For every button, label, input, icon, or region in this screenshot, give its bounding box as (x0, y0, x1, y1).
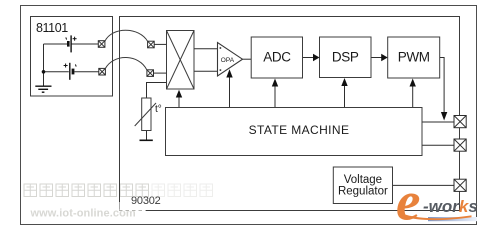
svg-text:e: e (396, 171, 420, 232)
svg-text:81101: 81101 (36, 21, 68, 35)
svg-text:t°: t° (155, 104, 162, 115)
svg-text:Voltage: Voltage (344, 174, 382, 186)
svg-text:Regulator: Regulator (338, 186, 388, 198)
svg-text:OPA: OPA (221, 57, 235, 64)
svg-text:DSP: DSP (332, 49, 359, 64)
svg-text:PWM: PWM (398, 50, 430, 65)
svg-text:90302: 90302 (131, 195, 161, 207)
svg-text:-works: -works (423, 197, 478, 216)
svg-text:ADC: ADC (263, 50, 291, 65)
svg-text:STATE MACHINE: STATE MACHINE (249, 123, 350, 137)
